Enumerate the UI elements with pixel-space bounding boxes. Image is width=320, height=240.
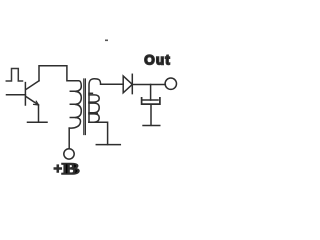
input pulse waveform symbol	[6, 69, 22, 82]
capacitor C1 (polarized, cup plate)	[142, 98, 160, 104]
wire capacitor to ground	[150, 105, 152, 126]
ground (secondary)	[96, 144, 120, 146]
wire diode to output	[132, 84, 165, 86]
node Out terminal circle	[165, 78, 176, 89]
wire primary bottom to +B	[68, 128, 70, 148]
stray mark	[105, 40, 108, 42]
wire collector to transformer	[39, 66, 76, 81]
svg-text:+: +	[54, 162, 63, 178]
ground (emitter)	[28, 121, 48, 123]
node +B terminal circle	[64, 149, 74, 159]
wire secondary bottom	[89, 122, 108, 144]
transformer T1 secondary winding	[89, 79, 101, 123]
ground (capacitor)	[143, 125, 160, 127]
svg-text:Out: Out	[144, 52, 171, 67]
transformer T1 primary winding	[69, 81, 81, 128]
wire emitter down	[38, 105, 40, 122]
wire secondary top to diode	[101, 83, 124, 85]
diode D1	[123, 74, 132, 93]
transistor Q1	[25, 81, 39, 105]
svg-text:B: B	[62, 160, 79, 178]
transformer core	[84, 79, 86, 135]
node junction to capacitor	[150, 85, 152, 101]
wire base lead	[7, 94, 26, 96]
